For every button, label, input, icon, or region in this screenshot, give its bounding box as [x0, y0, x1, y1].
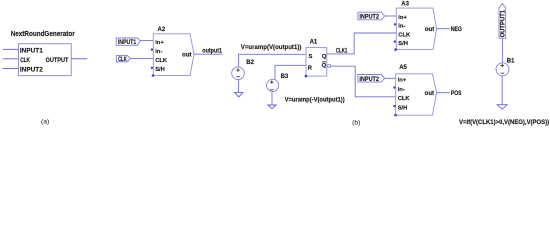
svg-text:INPUT1: INPUT1: [118, 39, 137, 46]
wire A1 Q to A3 CLK (net CLK1): [327, 33, 397, 54]
ground B3: [268, 92, 276, 109]
bv source B2: [232, 60, 255, 79]
svg-text:A2: A2: [158, 27, 166, 33]
wire INPUT1 tag to A2 in+: [140, 40, 153, 42]
svg-text:POS: POS: [451, 91, 462, 97]
wire A3 out: [437, 28, 450, 30]
svg-text:A5: A5: [399, 65, 407, 71]
svg-text:CLK: CLK: [398, 32, 411, 38]
bv source B1: [496, 59, 515, 76]
wire B3 to A1 R: [275, 65, 306, 80]
svg-text:INPUT2: INPUT2: [359, 14, 379, 21]
wire INPUT1 (a): [3, 48, 19, 50]
svg-text:S: S: [309, 54, 313, 60]
port tag INPUT1: [116, 38, 140, 46]
sample-and-hold A2: [151, 27, 194, 77]
svg-text:V=if(V(CLK1)>0,V(NEG),V(POS)): V=if(V(CLK1)>0,V(NEG),V(POS)): [459, 119, 549, 126]
ground B1: [497, 76, 507, 109]
wire A1 Qbar to A5 CLK: [330, 66, 395, 97]
svg-text:output1: output1: [202, 48, 222, 54]
svg-text:in+: in+: [398, 15, 407, 21]
svg-text:in-: in-: [398, 87, 405, 93]
svg-text:CLK: CLK: [398, 96, 411, 102]
wire INPUT2 (a): [3, 68, 19, 70]
ground B2: [235, 80, 243, 97]
port tag INPUT2 lower: [358, 75, 385, 83]
svg-text:V=uramp(-V(output1)): V=uramp(-V(output1)): [285, 97, 345, 104]
svg-text:S/H: S/H: [398, 105, 408, 111]
svg-text:CLK: CLK: [155, 58, 168, 64]
svg-text:B1: B1: [507, 59, 515, 65]
svg-text:S/H: S/H: [155, 67, 165, 73]
wire A5 out: [437, 92, 450, 94]
svg-text:Q: Q: [322, 63, 327, 69]
port tag OUTPUT1 (vertical): [499, 4, 506, 39]
svg-text:in-: in-: [398, 24, 405, 30]
svg-text:OUTPUT1: OUTPUT1: [499, 9, 506, 37]
module box (a): [19, 44, 72, 76]
wire INPUT2 tag to A5 in+: [385, 77, 396, 79]
port tag INPUT2 upper: [358, 12, 385, 20]
svg-text:in+: in+: [398, 78, 407, 84]
wire INPUT2 tag to A3 in+: [385, 15, 397, 17]
svg-text:B3: B3: [281, 74, 289, 80]
wire CLK tag to A2 CLK: [130, 58, 153, 60]
svg-text:out: out: [425, 27, 434, 33]
wire CLK (a): [3, 58, 19, 60]
port tag CLK: [116, 55, 130, 63]
svg-text:INPUT2: INPUT2: [359, 76, 379, 83]
svg-text:A3: A3: [401, 2, 409, 8]
svg-text:OUTPUT: OUTPUT: [46, 57, 69, 64]
svg-text:B2: B2: [246, 60, 254, 66]
wire B2 to A1 S: [239, 54, 306, 67]
svg-text:Q: Q: [322, 54, 327, 60]
svg-text:CLK1: CLK1: [336, 49, 348, 55]
SR latch A1: [305, 40, 331, 78]
svg-text:(a): (a): [41, 118, 49, 125]
bv source B3: [267, 74, 289, 92]
svg-text:out: out: [425, 91, 434, 97]
svg-text:V=uramp(V(output1)): V=uramp(V(output1)): [241, 44, 302, 51]
svg-text:CLK: CLK: [118, 56, 127, 63]
svg-text:CLK: CLK: [20, 57, 30, 64]
wire OUTPUT (a): [71, 58, 87, 60]
svg-text:(b): (b): [352, 120, 360, 127]
svg-text:in+: in+: [155, 40, 164, 46]
sample-and-hold A3: [394, 2, 437, 51]
sample-and-hold A5: [393, 65, 436, 116]
svg-text:in-: in-: [155, 49, 162, 55]
svg-text:A1: A1: [310, 40, 318, 46]
svg-text:NEG: NEG: [451, 27, 463, 33]
wire A2 out: [194, 53, 223, 55]
svg-text:NextRoundGenerator: NextRoundGenerator: [11, 29, 75, 38]
wire OUTPUT1 tag to B1: [501, 38, 503, 63]
svg-text:INPUT2: INPUT2: [20, 67, 43, 74]
svg-text:S/H: S/H: [398, 41, 408, 47]
svg-text:INPUT1: INPUT1: [20, 48, 43, 55]
svg-text:out: out: [182, 53, 191, 59]
